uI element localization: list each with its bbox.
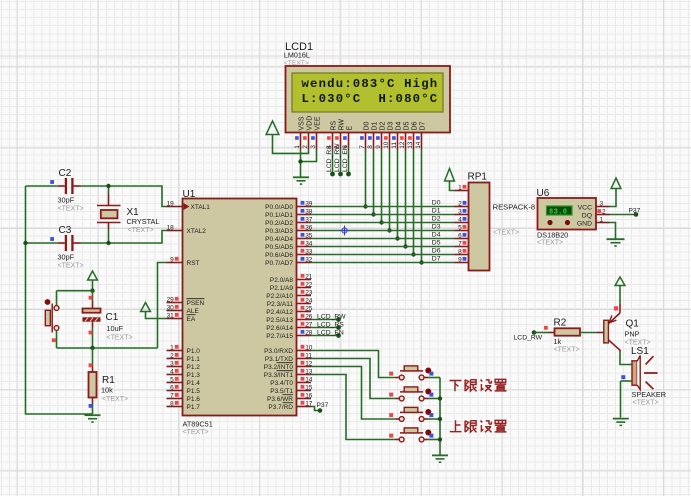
svg-text:P2.0/A8: P2.0/A8 — [270, 277, 294, 284]
svg-text:LCD_RS: LCD_RS — [326, 145, 333, 172]
svg-text:11: 11 — [391, 142, 398, 149]
svg-text:22: 22 — [305, 282, 313, 289]
svg-text:1: 1 — [294, 145, 301, 149]
svg-text:P2.6/A14: P2.6/A14 — [266, 325, 293, 332]
svg-text:2: 2 — [170, 353, 174, 360]
svg-text:P37: P37 — [317, 402, 329, 409]
svg-text:4: 4 — [458, 217, 462, 224]
svg-text:8: 8 — [458, 249, 462, 256]
svg-text:LM016L: LM016L — [284, 51, 310, 60]
svg-text:P1.0: P1.0 — [187, 348, 201, 355]
svg-text:D2: D2 — [432, 215, 441, 222]
svg-text:<TEXT>: <TEXT> — [633, 400, 659, 407]
svg-text:P3.3/INT1: P3.3/INT1 — [264, 372, 294, 379]
svg-text:<TEXT>: <TEXT> — [284, 60, 309, 67]
svg-text:P3.2/INT0: P3.2/INT0 — [264, 364, 294, 371]
svg-text:D3: D3 — [388, 121, 395, 130]
svg-text:D0: D0 — [432, 199, 441, 206]
svg-text:7: 7 — [458, 241, 462, 248]
svg-text:1: 1 — [600, 217, 604, 224]
svg-text:VSS: VSS — [299, 116, 306, 130]
svg-text:1k: 1k — [554, 337, 562, 346]
svg-text:CRYSTAL: CRYSTAL — [127, 217, 160, 226]
svg-text:1: 1 — [170, 345, 174, 352]
svg-text:P1.3: P1.3 — [187, 372, 201, 379]
svg-text:LCD_RW: LCD_RW — [514, 334, 543, 341]
svg-text:31: 31 — [167, 313, 175, 320]
svg-text:3: 3 — [600, 201, 604, 208]
svg-text:19: 19 — [167, 201, 175, 208]
svg-text:P1.2: P1.2 — [187, 364, 201, 371]
svg-text:29: 29 — [167, 297, 175, 304]
svg-text:U6: U6 — [537, 188, 550, 199]
svg-text:P0.7/AD7: P0.7/AD7 — [265, 260, 293, 267]
svg-text:RESPACK-8: RESPACK-8 — [493, 203, 535, 212]
svg-text:23: 23 — [305, 290, 313, 297]
svg-text:4: 4 — [170, 369, 174, 376]
svg-text:RP1: RP1 — [468, 172, 488, 183]
svg-text:P3.4/T0: P3.4/T0 — [270, 380, 293, 387]
svg-text:LS1: LS1 — [631, 346, 649, 357]
svg-text:L:030°C H:080°C: L:030°C H:080°C — [302, 92, 439, 106]
svg-text:10k: 10k — [101, 386, 113, 395]
svg-text:9: 9 — [170, 257, 174, 264]
svg-text:VDD: VDD — [307, 116, 314, 131]
svg-text:9: 9 — [375, 145, 382, 149]
svg-text:VEE: VEE — [315, 116, 322, 130]
svg-text:9: 9 — [458, 257, 462, 264]
svg-text:P3.6/WR: P3.6/WR — [267, 396, 293, 403]
svg-text:7: 7 — [170, 393, 174, 400]
svg-text:RW: RW — [339, 119, 346, 131]
svg-text:12: 12 — [399, 141, 406, 149]
svg-text:AT89C51: AT89C51 — [183, 420, 213, 429]
svg-text:D5: D5 — [404, 121, 411, 130]
svg-text:30pF: 30pF — [58, 253, 75, 262]
svg-text:P2.3/A11: P2.3/A11 — [267, 301, 294, 308]
svg-text:R1: R1 — [102, 375, 115, 386]
svg-text:P2.1/A9: P2.1/A9 — [270, 285, 294, 292]
svg-text:ALE: ALE — [187, 308, 200, 315]
svg-text:30: 30 — [167, 305, 175, 312]
svg-text:P2.5/A13: P2.5/A13 — [266, 317, 293, 324]
svg-text:16: 16 — [305, 393, 313, 400]
svg-text:VCC: VCC — [578, 204, 592, 211]
svg-text:8: 8 — [367, 145, 374, 149]
svg-text:P1.5: P1.5 — [187, 388, 201, 395]
svg-text:E: E — [347, 126, 354, 131]
svg-text:LCD_RS: LCD_RS — [317, 321, 344, 328]
svg-text:<TEXT>: <TEXT> — [183, 429, 209, 436]
svg-text:<TEXT>: <TEXT> — [102, 396, 128, 403]
svg-text:5: 5 — [170, 377, 174, 384]
svg-text:D6: D6 — [412, 121, 419, 130]
svg-text:D0: D0 — [364, 121, 371, 130]
svg-text:PSEN: PSEN — [187, 300, 205, 307]
svg-text:P3.0/RXD: P3.0/RXD — [264, 348, 293, 355]
svg-text:P3.1/TXD: P3.1/TXD — [265, 356, 293, 363]
svg-text:3: 3 — [458, 209, 462, 216]
svg-text:P2.2/A10: P2.2/A10 — [266, 293, 293, 300]
svg-text:P0.5/AD5: P0.5/AD5 — [265, 244, 293, 251]
svg-text:DS18B20: DS18B20 — [537, 231, 568, 240]
svg-text:P3.7/RD: P3.7/RD — [268, 404, 293, 411]
svg-text:13: 13 — [407, 141, 414, 149]
svg-text:P3.5/T1: P3.5/T1 — [270, 388, 293, 395]
svg-text:P1.6: P1.6 — [187, 396, 201, 403]
svg-text:P0.1/AD1: P0.1/AD1 — [265, 212, 293, 219]
svg-text:P2.4/A12: P2.4/A12 — [266, 309, 293, 316]
svg-text:30pF: 30pF — [58, 196, 75, 205]
svg-text:P0.6/AD6: P0.6/AD6 — [265, 252, 293, 259]
svg-text:SPEAKER: SPEAKER — [632, 390, 666, 399]
svg-text:DQ: DQ — [582, 212, 592, 219]
svg-text:P0.4/AD4: P0.4/AD4 — [265, 236, 293, 243]
svg-text:D6: D6 — [432, 247, 441, 254]
svg-text:D2: D2 — [380, 121, 387, 130]
svg-text:P1.7: P1.7 — [187, 404, 201, 411]
svg-text:<TEXT>: <TEXT> — [128, 227, 154, 234]
svg-text:D7: D7 — [432, 255, 441, 262]
svg-text:14: 14 — [305, 377, 313, 384]
svg-text:LCD_EN: LCD_EN — [342, 145, 349, 172]
svg-text:EA: EA — [187, 316, 196, 323]
svg-text:P2.7/A15: P2.7/A15 — [266, 333, 293, 340]
svg-text:<TEXT>: <TEXT> — [493, 230, 519, 237]
svg-text:6: 6 — [458, 233, 462, 240]
svg-text:24: 24 — [305, 298, 313, 305]
svg-text:wendu:083°C High: wendu:083°C High — [302, 77, 439, 91]
svg-text:Q1: Q1 — [626, 319, 640, 330]
svg-text:21: 21 — [305, 274, 313, 281]
svg-text:D5: D5 — [432, 239, 441, 246]
svg-text:10: 10 — [383, 141, 390, 149]
svg-text:<TEXT>: <TEXT> — [537, 240, 563, 247]
svg-text:P37: P37 — [629, 207, 641, 214]
svg-text:<TEXT>: <TEXT> — [554, 347, 580, 354]
svg-text:P0.2/AD2: P0.2/AD2 — [265, 220, 293, 227]
svg-text:GND: GND — [577, 220, 592, 227]
svg-text:D3: D3 — [432, 223, 441, 230]
svg-text:5: 5 — [458, 225, 462, 232]
svg-text:6: 6 — [170, 385, 174, 392]
svg-text:PNP: PNP — [625, 330, 640, 339]
svg-text:P0.0/AD0: P0.0/AD0 — [265, 204, 293, 211]
svg-text:C3: C3 — [59, 225, 72, 236]
svg-text:LCD_RW: LCD_RW — [334, 143, 341, 172]
svg-text:C2: C2 — [59, 168, 72, 179]
svg-text:D7: D7 — [420, 121, 427, 130]
svg-text:8: 8 — [170, 401, 174, 408]
svg-text:3: 3 — [310, 145, 317, 149]
svg-text:25: 25 — [305, 306, 313, 313]
svg-text:U1: U1 — [183, 189, 196, 200]
svg-text:LCD_EN: LCD_EN — [317, 329, 344, 336]
svg-text:83.0: 83.0 — [549, 208, 567, 216]
svg-text:1: 1 — [458, 185, 462, 192]
svg-text:P0.3/AD3: P0.3/AD3 — [265, 228, 293, 235]
svg-text:3: 3 — [170, 361, 174, 368]
svg-text:D1: D1 — [432, 207, 441, 214]
svg-text:P1.4: P1.4 — [187, 380, 201, 387]
svg-text:10uF: 10uF — [107, 324, 124, 333]
svg-text:7: 7 — [359, 145, 366, 149]
svg-text:P1.1: P1.1 — [187, 356, 201, 363]
svg-text:D4: D4 — [396, 121, 403, 130]
svg-text:R2: R2 — [554, 318, 567, 329]
svg-text:D1: D1 — [372, 121, 379, 130]
svg-text:<TEXT>: <TEXT> — [58, 263, 84, 270]
svg-text:D4: D4 — [432, 231, 441, 238]
svg-text:2: 2 — [458, 201, 462, 208]
svg-text:XTAL1: XTAL1 — [191, 204, 211, 211]
svg-text:C1: C1 — [106, 312, 119, 323]
svg-text:XTAL2: XTAL2 — [187, 228, 207, 235]
svg-text:14: 14 — [415, 141, 422, 149]
svg-text:15: 15 — [305, 385, 313, 392]
svg-text:2: 2 — [602, 209, 606, 216]
svg-text:LCD_RW: LCD_RW — [317, 313, 346, 320]
svg-text:2: 2 — [302, 145, 309, 149]
svg-text:18: 18 — [167, 225, 175, 232]
svg-text:RST: RST — [187, 260, 200, 267]
svg-text:<TEXT>: <TEXT> — [107, 335, 133, 342]
svg-text:<TEXT>: <TEXT> — [58, 206, 84, 213]
svg-text:RS: RS — [331, 120, 338, 130]
